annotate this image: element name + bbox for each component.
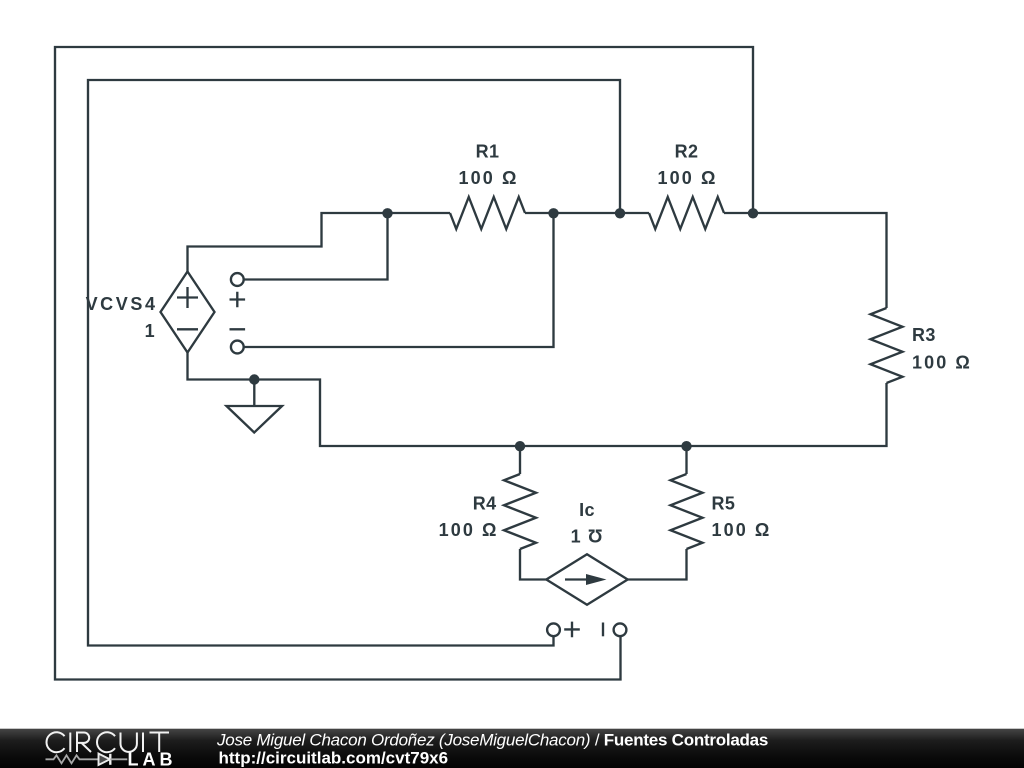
svg-text:100 Ω: 100 Ω <box>912 353 972 373</box>
svg-text:1: 1 <box>571 527 581 547</box>
wire control minus terminal to node B <box>244 213 554 347</box>
wire R4 top lead <box>519 446 521 474</box>
footer bar <box>0 729 1024 768</box>
resistor R1 <box>450 142 525 230</box>
current source Ic <box>546 500 627 605</box>
node R4 junction <box>515 441 525 451</box>
node C junction <box>615 208 625 218</box>
resistor R2 <box>649 142 724 230</box>
wire R5 bottom to Ic right <box>628 549 687 580</box>
wire R5 top lead <box>685 446 687 474</box>
resistor R5 <box>671 474 772 549</box>
svg-text:R3: R3 <box>912 325 936 345</box>
wire control plus terminal to node A <box>244 213 388 280</box>
svg-text:1: 1 <box>145 321 155 341</box>
ground <box>227 380 283 433</box>
node D junction <box>748 208 758 218</box>
node B junction <box>548 208 558 218</box>
CircuitLab logo mini schematic <box>46 754 128 765</box>
svg-text:R5: R5 <box>712 494 736 514</box>
wire R4 bottom to Ic left <box>520 549 546 580</box>
svg-text:100 Ω: 100 Ω <box>459 168 519 188</box>
svg-text:LAB: LAB <box>128 750 177 768</box>
wire VCVS4 output top to node A <box>188 213 388 272</box>
svg-text:R1: R1 <box>476 142 500 162</box>
wire outer loop <box>55 47 753 680</box>
wire R2 right to R3 top <box>724 213 887 308</box>
svg-text:Ic: Ic <box>579 500 595 520</box>
resistor R4 <box>439 474 536 549</box>
svg-text:Jose Miguel Chacon Ordoñez (Jo: Jose Miguel Chacon Ordoñez (JoseMiguelCh… <box>216 731 768 750</box>
svg-text:VCVS4: VCVS4 <box>86 294 158 314</box>
node ground junction <box>249 374 259 384</box>
svg-text:100 Ω: 100 Ω <box>658 168 718 188</box>
VCVS4 control terminal minus <box>230 329 246 353</box>
VCVS source VCVS4 <box>86 272 215 353</box>
node A junction <box>382 208 392 218</box>
wire R3 bottom to bottom rail to VCVS4 bottom <box>188 353 887 447</box>
wire node A to R1 left <box>388 212 451 214</box>
svg-text:R4: R4 <box>473 494 497 514</box>
wire R1 right to R2 left <box>525 212 649 214</box>
CircuitLab logo CIRCUIT <box>46 732 169 752</box>
svg-text:100 Ω: 100 Ω <box>712 520 772 540</box>
wire inner loop <box>88 80 620 646</box>
svg-text:100 Ω: 100 Ω <box>439 520 499 540</box>
svg-text:R2: R2 <box>675 142 699 162</box>
terminal minus output <box>603 623 626 637</box>
resistor R3 <box>871 308 972 383</box>
svg-text:Ω: Ω <box>588 526 603 546</box>
node R5 junction <box>681 441 691 451</box>
VCVS4 control terminal plus <box>230 273 246 307</box>
svg-text:http://circuitlab.com/cvt79x6: http://circuitlab.com/cvt79x6 <box>219 749 449 768</box>
terminal plus output <box>547 622 580 638</box>
